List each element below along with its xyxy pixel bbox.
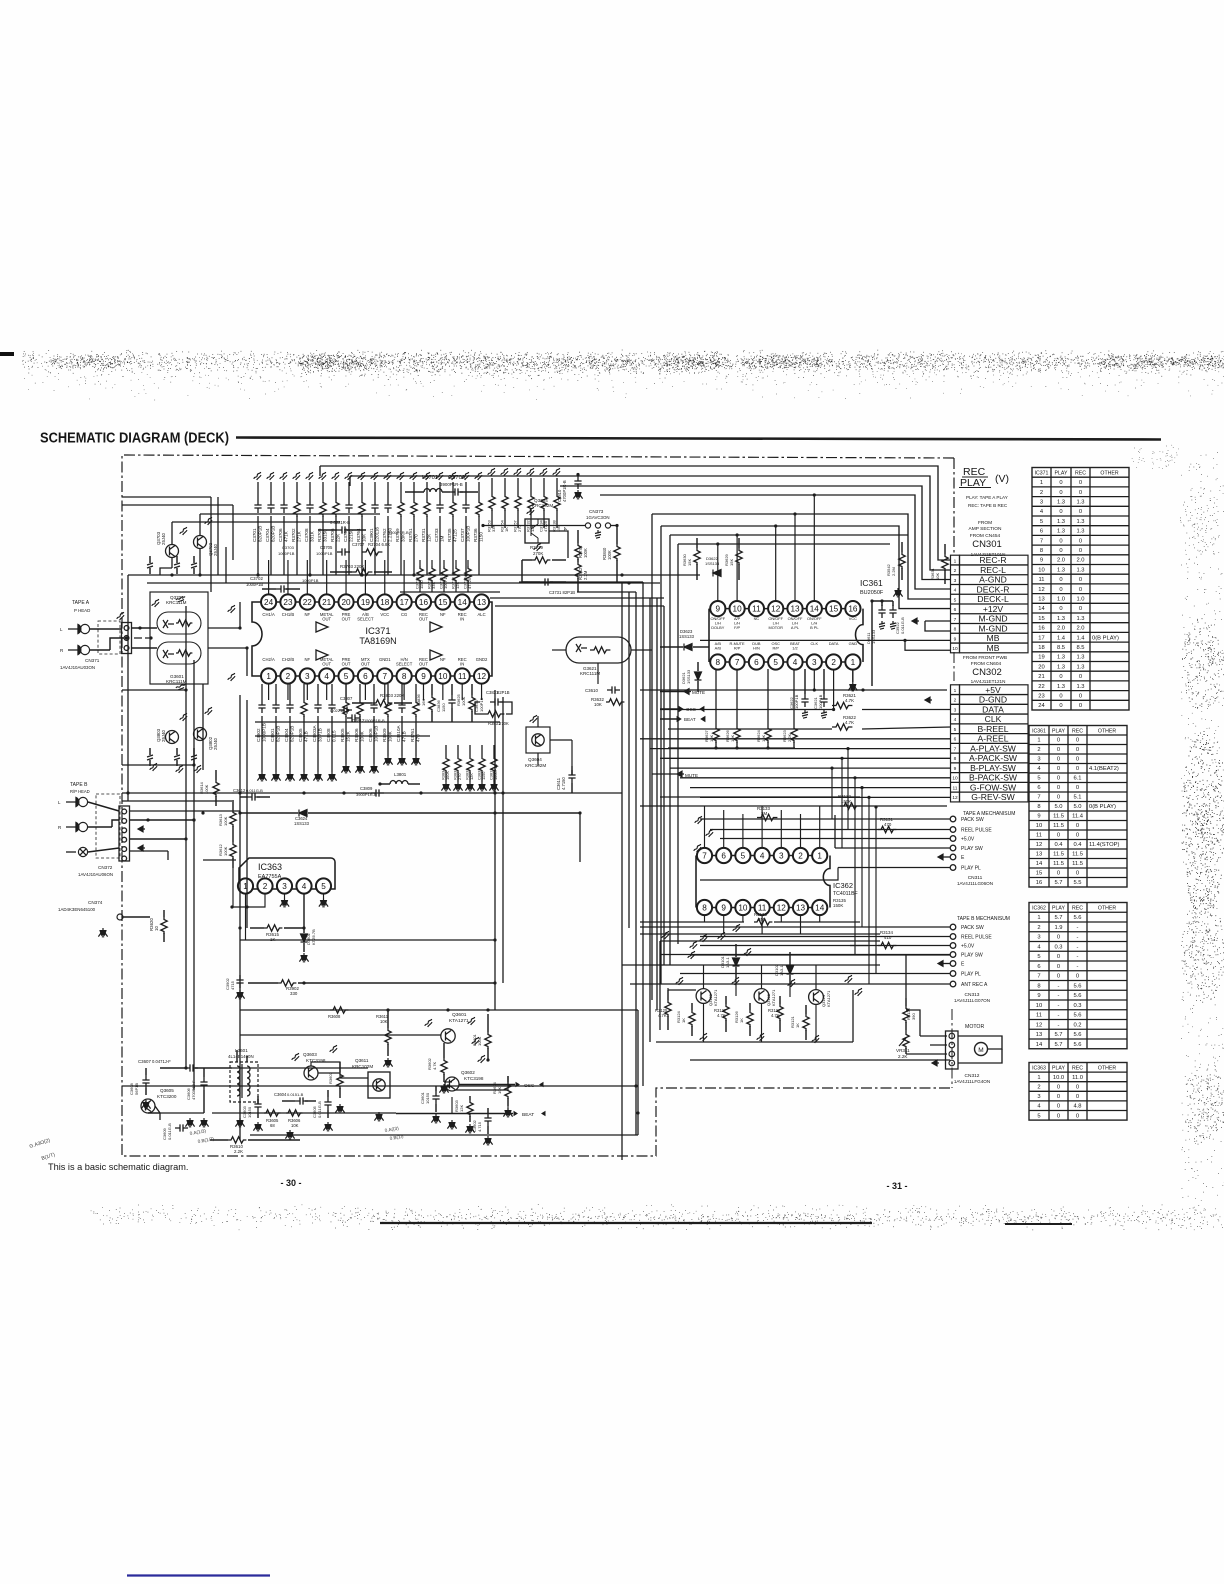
svg-text:11.5: 11.5 <box>1072 861 1083 867</box>
svg-text:C3706: C3706 <box>278 528 283 542</box>
svg-text:1.3: 1.3 <box>1076 567 1084 573</box>
voltage table IC371 <box>1032 468 1129 711</box>
svg-text:REC-R: REC-R <box>979 555 1006 565</box>
voltage table IC361 <box>1029 726 1127 888</box>
svg-text:0: 0 <box>1059 577 1062 583</box>
svg-text:MUTE: MUTE <box>692 690 705 695</box>
svg-text:+5.0V: +5.0V <box>961 944 975 950</box>
svg-text:-: - <box>1077 954 1079 960</box>
svg-text:REEL PULSE: REEL PULSE <box>961 935 992 941</box>
svg-text:5: 5 <box>1040 519 1043 525</box>
svg-text:820P1B: 820P1B <box>270 526 275 542</box>
svg-text:1: 1 <box>266 672 271 681</box>
svg-text:13: 13 <box>1036 852 1042 858</box>
svg-text:9: 9 <box>1037 993 1040 999</box>
svg-text:M: M <box>978 1047 983 1054</box>
svg-text:0: 0 <box>1079 538 1082 544</box>
svg-text:0: 0 <box>1057 1104 1060 1110</box>
svg-text:1500P1R-B: 1500P1R-B <box>364 718 385 723</box>
svg-text:7: 7 <box>382 672 387 681</box>
svg-text:100K: 100K <box>607 550 612 560</box>
svg-text:1AV4J11ET121N: 1AV4J11ET121N <box>971 679 1006 684</box>
svg-text:TC4011BF: TC4011BF <box>833 891 858 897</box>
svg-text:7: 7 <box>1037 974 1040 980</box>
svg-text:0: 0 <box>1076 738 1079 744</box>
svg-text:CLK: CLK <box>811 641 819 646</box>
svg-text:5.6: 5.6 <box>1073 1032 1081 1038</box>
IC363 pin row 1-5 <box>238 878 253 893</box>
svg-text:20: 20 <box>341 598 351 607</box>
head coil Q3701 upper <box>157 612 201 634</box>
svg-text:23: 23 <box>1038 694 1044 700</box>
svg-text:3900P1R-B: 3900P1R-B <box>440 482 463 487</box>
svg-text:12: 12 <box>1036 842 1042 848</box>
hatch marks mech wires <box>694 816 704 825</box>
svg-text:C3701: C3701 <box>252 528 257 542</box>
svg-text:Q3604: Q3604 <box>528 757 542 762</box>
IC371 internal amp triangles <box>316 622 328 632</box>
connector CN302 pin boxes <box>951 685 960 802</box>
mute arrow lower <box>677 771 684 777</box>
svg-text:TAPE B: TAPE B <box>70 782 88 788</box>
svg-text:5.7: 5.7 <box>1054 915 1062 921</box>
svg-text:1AV4J11LG07ON: 1AV4J11LG07ON <box>954 998 990 1003</box>
IC371 top pin row 24-13 <box>261 594 276 609</box>
svg-text:NF: NF <box>305 612 311 617</box>
svg-text:14: 14 <box>458 598 468 607</box>
svg-text:A-PACK-SW: A-PACK-SW <box>969 753 1018 763</box>
svg-text:IC363: IC363 <box>1032 1066 1046 1072</box>
wire IC362 horizontals <box>640 805 947 807</box>
svg-text:33150: 33150 <box>322 529 327 542</box>
wire CN302 vertical drops <box>831 768 833 819</box>
svg-text:13: 13 <box>790 604 800 613</box>
svg-text:5: 5 <box>773 658 778 667</box>
svg-text:1AV4J11LG06ON: 1AV4J11LG06ON <box>957 881 993 886</box>
svg-text:+5V: +5V <box>985 685 1001 695</box>
wire motor feeds <box>905 1030 907 1032</box>
transistor Q3122 <box>696 989 711 1004</box>
MUTE line <box>684 689 691 695</box>
svg-text:Q3601: Q3601 <box>452 1012 467 1018</box>
svg-text:B-PACK-SW: B-PACK-SW <box>969 773 1018 783</box>
svg-text:0: 0 <box>1079 694 1082 700</box>
svg-text:11.5: 11.5 <box>1053 823 1064 829</box>
caps below Q3803/Q3802 <box>147 755 153 760</box>
svg-text:5: 5 <box>344 672 349 681</box>
svg-text:IC363: IC363 <box>258 862 282 872</box>
connector CN371 <box>122 623 132 654</box>
svg-text:PLAY PL: PLAY PL <box>961 866 981 872</box>
IC361 bottom pin row 8-1 <box>710 654 725 669</box>
dark smudge line bottom <box>380 1222 872 1224</box>
pot VR311 <box>903 1032 909 1049</box>
svg-text:C3801: C3801 <box>270 728 275 742</box>
svg-text:KTA1271: KTA1271 <box>713 989 718 1006</box>
svg-text:PLAY: PLAY <box>1052 1066 1065 1072</box>
svg-text:PLAY SW: PLAY SW <box>961 953 983 959</box>
svg-text:11: 11 <box>953 785 958 791</box>
svg-text:SELECT: SELECT <box>357 617 374 622</box>
svg-text:KTZ6.7B: KTZ6.7B <box>311 929 316 945</box>
svg-text:OTHER: OTHER <box>1098 728 1116 734</box>
wire y813 right drop <box>579 813 581 862</box>
svg-text:L3801: L3801 <box>394 772 407 777</box>
svg-text:33P1B: 33P1B <box>317 728 322 742</box>
wire mechanism B rows <box>640 926 950 928</box>
svg-text:2: 2 <box>263 882 268 891</box>
svg-text:1.3: 1.3 <box>1057 519 1065 525</box>
svg-text:R/P: R/P <box>772 645 779 650</box>
svg-text:BEAT: BEAT <box>684 717 696 722</box>
svg-text:C3705: C3705 <box>320 545 333 550</box>
svg-text:0: 0 <box>1076 1094 1079 1100</box>
svg-text:8: 8 <box>954 756 957 762</box>
svg-text:0: 0 <box>1057 795 1060 801</box>
svg-text:B-PLAY-SW: B-PLAY-SW <box>970 763 1017 773</box>
svg-text:0.3: 0.3 <box>1073 1003 1081 1009</box>
svg-text:A/B: A/B <box>715 645 722 650</box>
transistor Q3604 <box>526 727 550 753</box>
svg-text:10150: 10150 <box>425 1092 430 1104</box>
svg-text:This is a basic schematic diag: This is a basic schematic diagram. <box>48 1162 188 1172</box>
svg-text:REC: REC <box>1072 1066 1083 1072</box>
svg-text:9: 9 <box>954 766 957 772</box>
svg-text:6: 6 <box>721 851 726 860</box>
svg-text:1.3: 1.3 <box>1057 616 1065 622</box>
svg-text:-: - <box>1077 964 1079 970</box>
wire cluster box <box>660 940 880 942</box>
svg-text:OUT: OUT <box>419 617 428 622</box>
svg-text:410: 410 <box>884 935 892 940</box>
voltage table IC363 <box>1029 1063 1127 1121</box>
svg-text:4: 4 <box>954 717 957 723</box>
svg-text:DATA: DATA <box>982 704 1004 714</box>
svg-text:AMP SECTION: AMP SECTION <box>969 526 1002 532</box>
voltage table IC362 <box>1029 903 1127 1049</box>
svg-text:2.2K: 2.2K <box>234 1149 243 1154</box>
svg-text:C3806: C3806 <box>368 728 373 742</box>
svg-text:1.3: 1.3 <box>1057 500 1065 506</box>
svg-text:C3607: C3607 <box>138 1059 151 1064</box>
svg-text:OUT: OUT <box>322 662 331 667</box>
svg-text:OTHER: OTHER <box>1098 906 1116 912</box>
svg-text:9: 9 <box>421 672 426 681</box>
svg-text:10: 10 <box>1038 567 1044 573</box>
svg-text:VCC: VCC <box>849 616 857 621</box>
svg-text:4700P1R-B: 4700P1R-B <box>562 480 567 502</box>
svg-text:6: 6 <box>1040 529 1043 535</box>
svg-text:2: 2 <box>286 672 291 681</box>
svg-text:TAPE A: TAPE A <box>72 600 90 606</box>
svg-text:R3608: R3608 <box>328 1014 341 1019</box>
svg-text:-: - <box>1077 944 1079 950</box>
svg-text:0.2: 0.2 <box>1073 1022 1081 1028</box>
svg-text:0: 0 <box>1057 785 1060 791</box>
svg-text:5.6: 5.6 <box>1073 1013 1081 1019</box>
svg-text:R3736: R3736 <box>473 528 478 542</box>
svg-text:3: 3 <box>812 658 817 667</box>
component bank below IC371 <box>261 684 263 700</box>
svg-text:0: 0 <box>1079 509 1082 515</box>
svg-text:0: 0 <box>1059 694 1062 700</box>
svg-text:1.3: 1.3 <box>1076 500 1084 506</box>
wire IC361 bottom pin data stubs <box>813 670 815 690</box>
svg-text:R/P: R/P <box>734 645 741 650</box>
svg-text:17: 17 <box>1038 635 1044 641</box>
svg-text:R/P HEAD: R/P HEAD <box>70 789 90 794</box>
svg-text:3: 3 <box>1037 935 1040 941</box>
svg-text:C3707: C3707 <box>352 542 365 547</box>
title rule <box>236 438 1161 440</box>
svg-text:2.2K: 2.2K <box>787 733 792 742</box>
wire CN302 feeds <box>863 689 947 691</box>
svg-text:3: 3 <box>779 851 784 860</box>
svg-text:0: 0 <box>1076 747 1079 753</box>
svg-text:PLAY: PLAY <box>1055 471 1068 477</box>
motor M1 <box>958 1036 1002 1049</box>
svg-text:R3703 220K: R3703 220K <box>340 564 364 569</box>
svg-text:0: 0 <box>1076 871 1079 877</box>
svg-text:3: 3 <box>1037 757 1040 763</box>
svg-text:REC: REC <box>1072 906 1083 912</box>
wire head box to IC371 <box>208 602 240 628</box>
svg-text:0(B PLAY): 0(B PLAY) <box>1092 635 1119 641</box>
svg-text:IC371: IC371 <box>1035 471 1049 477</box>
svg-text:NF: NF <box>440 657 446 662</box>
svg-text:13: 13 <box>1036 1032 1042 1038</box>
svg-text:11: 11 <box>1038 577 1044 583</box>
svg-text:1.3: 1.3 <box>1057 567 1065 573</box>
svg-text:A PL: A PL <box>791 625 800 630</box>
svg-text:25J40: 25J40 <box>213 737 218 750</box>
wire M-GND stub <box>925 620 951 622</box>
svg-text:8: 8 <box>402 672 407 681</box>
svg-text:5.7: 5.7 <box>1054 1042 1062 1048</box>
svg-text:1000P1B: 1000P1B <box>302 578 319 583</box>
svg-text:CH2/B: CH2/B <box>282 657 295 662</box>
svg-text:Q3605: Q3605 <box>160 1088 174 1093</box>
wire mid vertical bundle <box>621 582 623 1160</box>
svg-text:1A3-1: 1A3-1 <box>725 957 730 968</box>
svg-text:10.0: 10.0 <box>1053 1075 1064 1081</box>
svg-text:100K: 100K <box>445 771 450 780</box>
svg-text:4.715: 4.715 <box>477 1121 482 1132</box>
svg-text:2: 2 <box>798 851 803 860</box>
svg-text:1.3: 1.3 <box>1076 655 1084 661</box>
ground below IC361 pin1 <box>852 669 854 682</box>
blue registration line <box>127 1574 270 1576</box>
svg-text:1AV4J11LFG4ON: 1AV4J11LFG4ON <box>954 1079 990 1084</box>
wire main bus upper left <box>128 574 700 576</box>
svg-text:1: 1 <box>1040 480 1043 486</box>
wavy marks cluster <box>675 977 685 986</box>
svg-text:C3733: C3733 <box>434 528 439 542</box>
svg-text:15K: 15K <box>687 559 692 566</box>
svg-text:15K: 15K <box>729 559 734 566</box>
svg-text:CLK: CLK <box>985 714 1002 724</box>
svg-text:- 30 -: - 30 - <box>280 1178 301 1188</box>
svg-text:CN373: CN373 <box>589 509 604 514</box>
svg-text:1.4: 1.4 <box>1076 635 1085 641</box>
svg-text:1150: 1150 <box>441 703 446 712</box>
svg-text:BEAT: BEAT <box>522 1112 534 1118</box>
svg-text:8: 8 <box>1040 548 1043 554</box>
svg-text:4: 4 <box>324 672 329 681</box>
svg-text:0: 0 <box>1059 480 1062 486</box>
svg-text:0: 0 <box>1057 747 1060 753</box>
svg-text:2: 2 <box>1037 925 1040 931</box>
svg-text:47125: 47125 <box>452 529 457 542</box>
svg-text:1: 1 <box>954 558 957 564</box>
svg-text:R3761: R3761 <box>410 728 415 742</box>
svg-text:820P1B: 820P1B <box>289 726 294 742</box>
svg-text:0: 0 <box>1079 703 1082 709</box>
svg-text:4.7K: 4.7K <box>432 1061 437 1070</box>
svg-text:PLAY: PLAY <box>1052 728 1065 734</box>
svg-text:11.5: 11.5 <box>1053 814 1064 820</box>
svg-text:1SS133: 1SS133 <box>871 629 876 644</box>
svg-text:10K: 10K <box>291 1123 299 1128</box>
svg-text:1.3: 1.3 <box>1076 684 1084 690</box>
svg-text:14: 14 <box>810 604 820 613</box>
svg-text:11.4: 11.4 <box>1072 814 1084 820</box>
svg-text:0: 0 <box>1079 480 1082 486</box>
svg-text:KRC111M: KRC111M <box>166 600 187 605</box>
svg-text:0: 0 <box>1076 823 1079 829</box>
svg-text:270K: 270K <box>533 551 543 556</box>
svg-text:0: 0 <box>1079 548 1082 554</box>
svg-text:C3703: C3703 <box>282 545 295 550</box>
svg-text:IC362: IC362 <box>1032 906 1046 912</box>
svg-text:16: 16 <box>848 604 858 613</box>
svg-text:1150: 1150 <box>419 580 424 589</box>
svg-text:11.5: 11.5 <box>1053 852 1064 858</box>
svg-text:NC: NC <box>754 616 760 621</box>
svg-text:GND: GND <box>849 641 858 646</box>
svg-text:M-GND: M-GND <box>978 623 1007 633</box>
svg-text:+5.0V: +5.0V <box>961 837 975 843</box>
driver IC363 EA7755A body <box>239 858 335 889</box>
svg-text:2: 2 <box>1037 747 1040 753</box>
svg-text:ANT REC A: ANT REC A <box>961 982 988 988</box>
svg-text:0.0221R-B: 0.0221R-B <box>330 708 349 713</box>
svg-text:21: 21 <box>322 598 332 607</box>
svg-text:19: 19 <box>1038 655 1044 661</box>
svg-text:0.0471J-F: 0.0471J-F <box>152 1059 171 1064</box>
svg-text:0: 0 <box>1059 548 1062 554</box>
svg-text:5.0: 5.0 <box>1073 804 1081 810</box>
svg-text:82P1B: 82P1B <box>497 690 510 695</box>
svg-text:15: 15 <box>1038 616 1044 622</box>
svg-text:KTA1271: KTA1271 <box>826 990 831 1007</box>
svg-text:4: 4 <box>760 851 765 860</box>
svg-text:1K: 1K <box>739 1018 744 1023</box>
scan noise right column <box>1181 453 1224 1230</box>
wire bottom left long runs <box>239 695 241 1140</box>
wire head A to bus verticals <box>202 684 204 770</box>
svg-text:PLAY PL: PLAY PL <box>961 972 981 978</box>
svg-text:1SS133: 1SS133 <box>679 634 695 639</box>
svg-text:1: 1 <box>954 688 957 694</box>
svg-text:0: 0 <box>1057 757 1060 763</box>
wire IC371 top pins to bus <box>268 560 270 595</box>
svg-text:0: 0 <box>1079 587 1082 593</box>
svg-text:15: 15 <box>1036 871 1042 877</box>
svg-text:GND1: GND1 <box>379 657 391 662</box>
svg-text:0: 0 <box>1057 954 1060 960</box>
svg-text:0: 0 <box>1079 606 1082 612</box>
svg-text:5.0: 5.0 <box>1054 804 1062 810</box>
svg-text:4.8: 4.8 <box>1073 1104 1081 1110</box>
svg-text:4: 4 <box>793 658 798 667</box>
svg-text:8: 8 <box>716 658 721 667</box>
svg-text:5.1: 5.1 <box>1073 795 1081 801</box>
svg-text:C3802: C3802 <box>256 728 261 742</box>
svg-text:0.011G-B: 0.011G-B <box>246 788 263 793</box>
resistor bank below IC361 <box>715 669 717 726</box>
component bank above IC371 <box>257 482 259 500</box>
svg-text:8: 8 <box>702 903 707 912</box>
svg-text:0: 0 <box>1079 490 1082 496</box>
svg-text:KRC102M: KRC102M <box>532 503 553 508</box>
svg-text:CN374: CN374 <box>88 900 103 905</box>
svg-text:1150: 1150 <box>478 532 483 542</box>
wire mid head connections <box>552 649 566 651</box>
svg-text:0: 0 <box>1057 1113 1060 1119</box>
svg-text:DECK-R: DECK-R <box>977 584 1010 594</box>
svg-text:2.2M: 2.2M <box>891 567 896 576</box>
svg-text:9: 9 <box>721 903 726 912</box>
svg-text:1.3: 1.3 <box>1076 616 1084 622</box>
svg-text:9: 9 <box>954 636 957 642</box>
svg-text:DECK-L: DECK-L <box>977 594 1009 604</box>
svg-text:C3610: C3610 <box>585 688 598 693</box>
wire top-left verticals <box>210 497 212 592</box>
IC362 bottom pin row 8-14 <box>697 900 712 915</box>
svg-text:5: 5 <box>954 727 957 733</box>
svg-text:2: 2 <box>1037 1085 1040 1091</box>
svg-text:10: 10 <box>1036 823 1042 829</box>
svg-text:0: 0 <box>1057 776 1060 782</box>
svg-text:MB: MB <box>987 643 1000 653</box>
svg-text:MOTOR: MOTOR <box>965 1024 984 1030</box>
svg-text:24: 24 <box>1038 703 1045 709</box>
svg-text:R3739: R3739 <box>530 545 543 550</box>
svg-text:22: 22 <box>1038 684 1044 690</box>
svg-text:100P1B: 100P1B <box>443 574 448 589</box>
svg-text:C3803A: C3803A <box>312 724 317 742</box>
ground near IC361 label <box>895 588 901 595</box>
wire IC371 bottom pins down <box>268 683 270 700</box>
svg-text:-: - <box>1058 1003 1060 1009</box>
svg-text:1SS133: 1SS133 <box>294 821 310 826</box>
svg-text:2.0: 2.0 <box>1057 558 1065 564</box>
svg-text:PLAY: TAPE A PLAY: PLAY: TAPE A PLAY <box>966 495 1008 500</box>
grounds Q3601 area <box>433 1114 439 1121</box>
svg-text:271K: 271K <box>296 530 301 542</box>
svg-text:1500P1R-B: 1500P1R-B <box>388 530 409 535</box>
svg-text:24: 24 <box>264 598 274 607</box>
svg-text:A-REEL: A-REEL <box>977 734 1008 744</box>
svg-text:FROM: FROM <box>978 520 992 526</box>
wire horizontals into bundle <box>519 581 643 583</box>
svg-text:4: 4 <box>302 882 307 891</box>
svg-text:22150: 22150 <box>348 529 353 542</box>
svg-text:4715: 4715 <box>230 980 235 990</box>
svg-text:-: - <box>1077 935 1079 941</box>
svg-text:4.7K: 4.7K <box>845 698 854 703</box>
